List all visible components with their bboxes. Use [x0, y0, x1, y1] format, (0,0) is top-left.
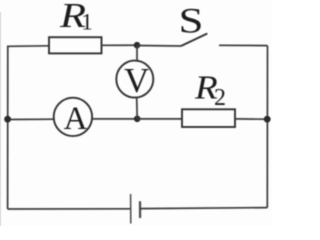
svg-text:1: 1 [81, 9, 93, 34]
resistor R2 [182, 109, 235, 127]
wire R1 to node A [102, 44, 138, 46]
voltmeter V1 circle [116, 61, 153, 98]
wire voltmeter top lead [136, 45, 138, 61]
wire battery to bottom-right corner [140, 208, 267, 209]
svg-text:S: S [179, 1, 204, 41]
ammeter A1 circle [54, 98, 92, 136]
scan artifact streak left border [0, 12, 2, 226]
battery short plate [139, 201, 141, 218]
svg-text:A: A [64, 101, 88, 137]
node top junction [134, 42, 141, 49]
wire bottom-left (corner to battery) [8, 208, 131, 210]
node middle junction [134, 116, 141, 123]
wire node B to R2 [137, 118, 182, 120]
svg-text:2: 2 [214, 85, 226, 111]
svg-text:V: V [124, 61, 149, 100]
wire middle-left (edge to ammeter) [8, 118, 54, 120]
resistor R1 [49, 37, 102, 53]
node middle-left [4, 116, 11, 123]
wire top-left (corner to R1) [8, 45, 49, 48]
battery long plate [130, 194, 132, 224]
node middle-right [264, 116, 271, 123]
right edge wire [266, 46, 268, 208]
wire node to switch pivot [137, 45, 181, 48]
wire R2 to right node [235, 118, 267, 120]
wire voltmeter bottom lead [136, 98, 139, 119]
wire switch to top-right corner [219, 44, 268, 46]
switch S blade [181, 34, 207, 47]
left edge wire [7, 46, 9, 210]
wire ammeter to node B [92, 118, 137, 120]
